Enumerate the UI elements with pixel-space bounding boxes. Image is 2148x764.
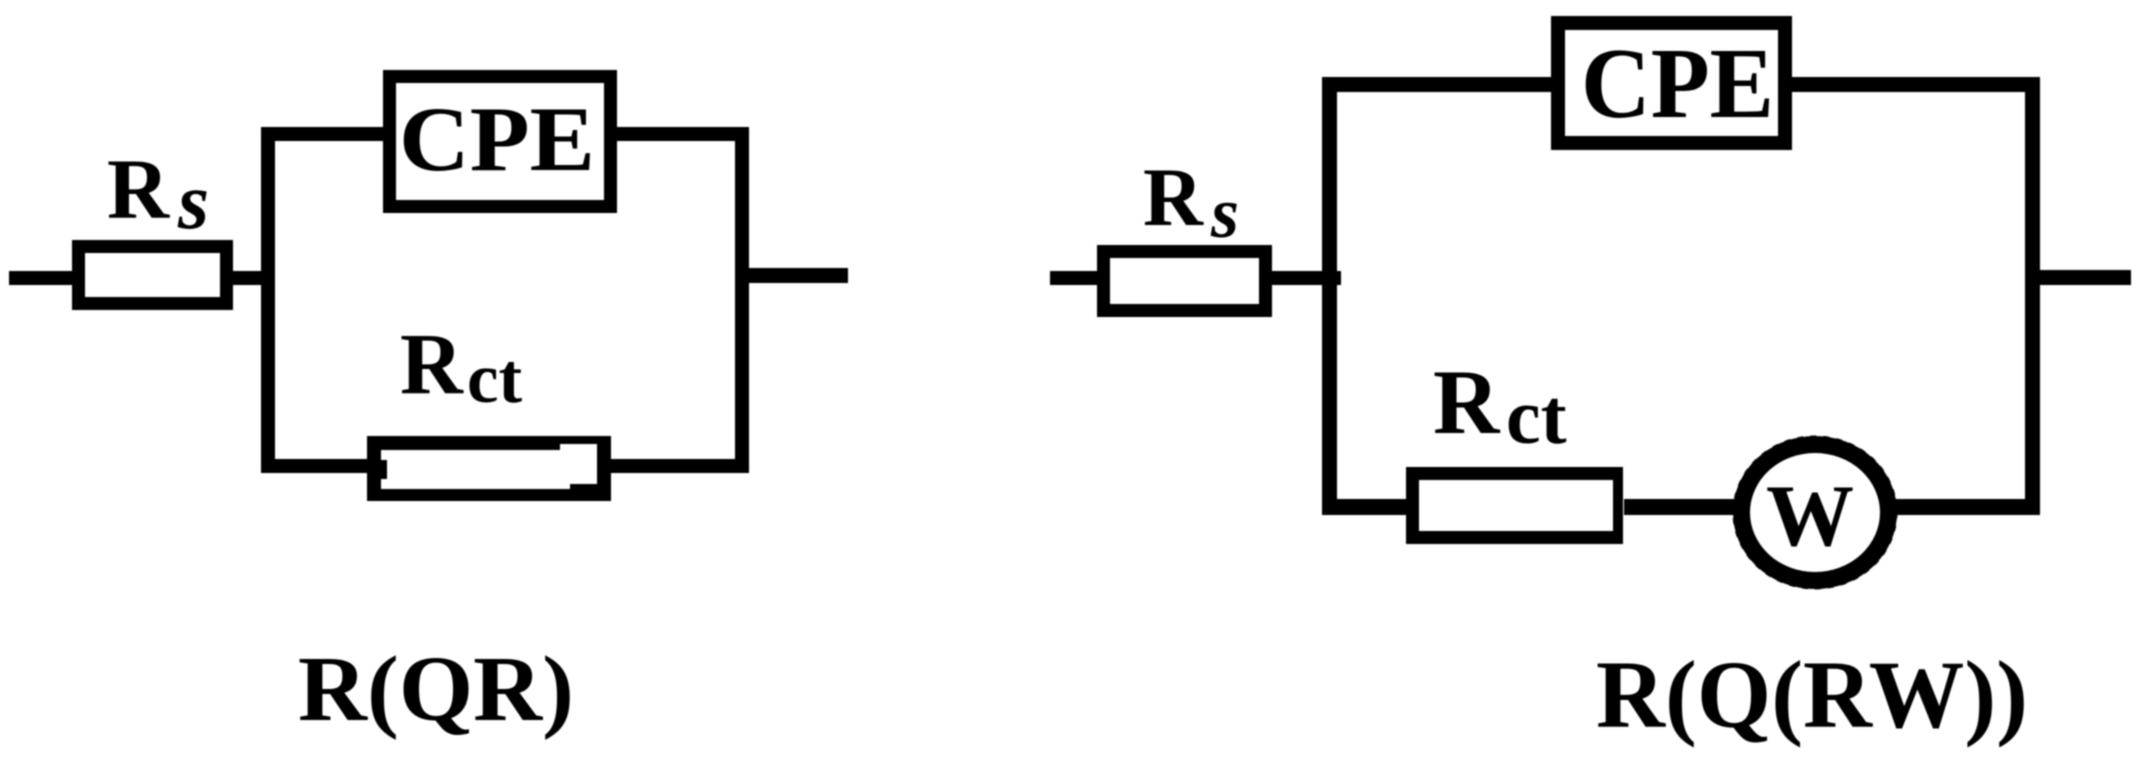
svg-text:R: R [107, 141, 170, 237]
svg-text:CPE: CPE [1581, 27, 1774, 139]
svg-text:R: R [1143, 151, 1204, 243]
svg-text:R(QR): R(QR) [298, 638, 574, 741]
svg-text:R: R [1433, 351, 1501, 453]
svg-text:ct: ct [1506, 373, 1567, 460]
svg-text:ct: ct [467, 340, 523, 418]
svg-text:R: R [400, 315, 464, 412]
svg-text:CPE: CPE [399, 88, 595, 190]
svg-text:s: s [177, 158, 209, 246]
svg-text:s: s [1210, 173, 1239, 253]
svg-text:R(Q(RW)): R(Q(RW)) [1596, 641, 2028, 748]
svg-text:W: W [1766, 468, 1854, 565]
